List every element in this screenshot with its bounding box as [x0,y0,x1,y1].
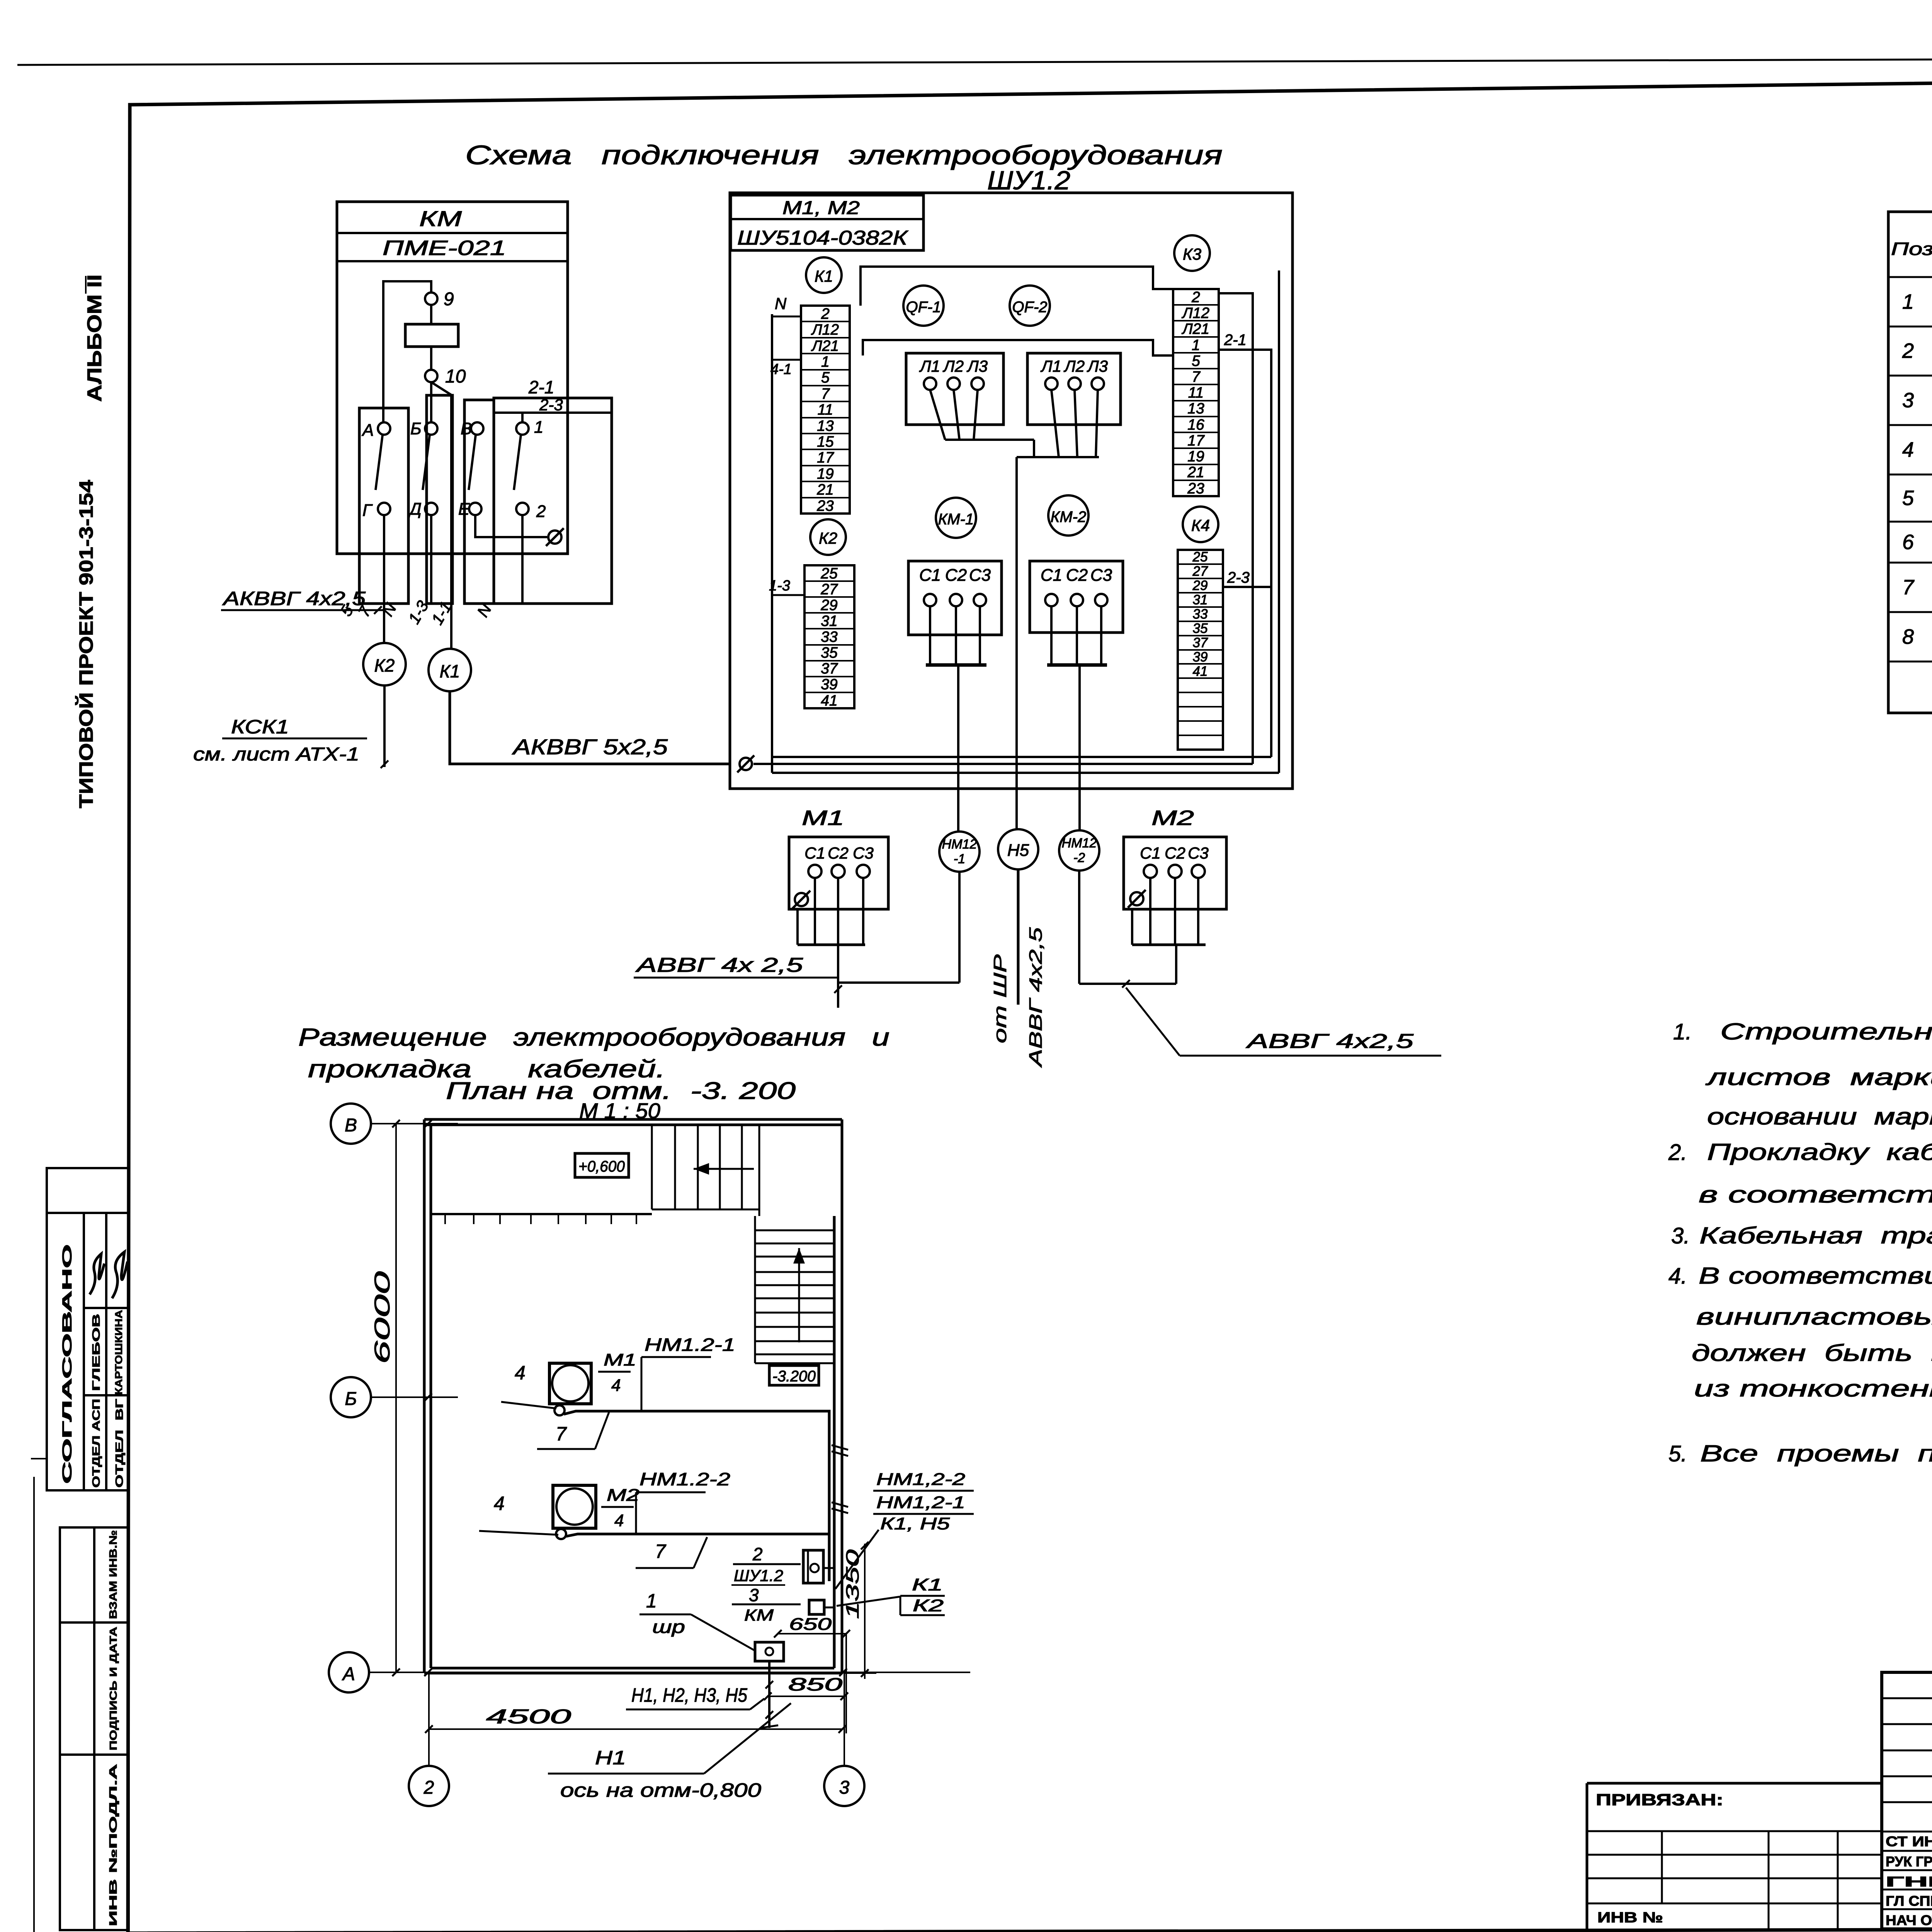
stamp signature 1 [90,1254,104,1294]
svg-text:К1: К1 [912,1575,943,1594]
axis marker А [329,1652,369,1692]
svg-text:Д: Д [408,500,422,519]
svg-text:КСК1: КСК1 [231,716,289,738]
svg-text:17: 17 [1187,432,1205,449]
wire НМ12-2 down [1078,871,1080,984]
svg-text:29: 29 [820,597,837,614]
wire Е to earth symbol [475,515,547,537]
cable marker К1 [429,649,471,691]
svg-text:3: 3 [1902,389,1914,412]
svg-text:3.: 3. [1671,1223,1690,1248]
cable Н1-Н5 exit down [768,1661,770,1728]
svg-text:Прокладку кабелей и проводо: Прокладку кабелей и проводов выполнить [1707,1139,1932,1165]
lower stair arrow [798,1248,800,1342]
cable path М2 to cabinet [566,1534,829,1536]
leader шр to box [691,1614,755,1651]
svg-text:см. лист АТХ-1: см. лист АТХ-1 [193,744,359,765]
svg-text:А: А [342,1664,355,1684]
svg-text:СТ ИНЖ: СТ ИНЖ [1886,1833,1932,1849]
svg-text:от ШР: от ШР [990,954,1010,1043]
svg-text:19: 19 [1187,448,1204,465]
bottom bus B [772,756,1271,758]
svg-text:37: 37 [1193,635,1208,650]
pump unit М2 [553,1485,596,1528]
attachment box ПРИВЯЗАН [1587,1782,1883,1785]
svg-text:5: 5 [821,369,830,386]
wire М2 cable drop [1175,945,1177,984]
svg-text:1: 1 [821,354,830,370]
cable marker Н5 [998,829,1038,869]
lamp box Л1-Л3 group 2 [1027,353,1121,425]
terminal strip К1 [801,306,850,514]
svg-text:КАРТОШКИНА: КАРТОШКИНА [113,1310,124,1395]
terminal 10 [425,370,437,382]
motor box М2 [1124,837,1226,909]
svg-text:7: 7 [1902,576,1915,599]
svg-text:АКВВГ 5х2,5: АКВВГ 5х2,5 [512,735,668,759]
relay marker К1 [806,257,842,293]
svg-text:2: 2 [536,502,546,521]
svg-text:1: 1 [646,1590,657,1612]
terminal box С1-С3 group 1 (КМ-1) [908,561,1002,635]
svg-text:+0,600: +0,600 [578,1158,625,1175]
svg-text:11: 11 [1188,384,1204,401]
svg-text:7: 7 [821,386,830,402]
svg-text:9: 9 [444,289,454,310]
leader to АВВГ label М2 [1126,988,1180,1056]
svg-text:2-3: 2-3 [539,396,563,414]
svg-text:21: 21 [816,481,833,498]
svg-text:2: 2 [423,1777,434,1798]
svg-text:НМ1.2-2: НМ1.2-2 [639,1469,730,1489]
svg-text:13: 13 [1187,400,1204,417]
contact 1 [516,422,529,435]
svg-text:39: 39 [1193,650,1208,665]
svg-text:3: 3 [839,1777,850,1798]
svg-text:7: 7 [655,1541,667,1562]
svg-text:В: В [345,1115,357,1136]
svg-text:4.: 4. [1668,1264,1687,1289]
svg-text:2-3: 2-3 [1227,569,1250,586]
earth symbol М2 [1130,892,1143,905]
svg-text:Г: Г [362,501,373,520]
earth symbol cabinet [740,758,752,770]
svg-text:29: 29 [1192,578,1208,593]
svg-text:2-1: 2-1 [528,377,554,397]
motor box М1 [789,837,888,909]
wire contact 1 stub [521,413,524,422]
svg-text:2: 2 [752,1544,763,1564]
svg-text:К1: К1 [815,267,833,285]
wire НМ12-1 feeder down [957,665,959,832]
svg-text:4: 4 [1902,438,1914,461]
svg-text:1-3: 1-3 [769,578,790,594]
svg-text:1350: 1350 [842,1549,862,1619]
svg-text:С3: С3 [853,844,874,862]
cable marker НМ12-2 [1059,830,1099,871]
contact chamber Б-Д [427,395,452,604]
svg-text:К1, Н5: К1, Н5 [880,1514,950,1533]
leader К1/К2 to КМ [837,1597,900,1606]
svg-text:Кабельная трасса идет на в: Кабельная трасса идет на высоте 2,5 м от… [1699,1223,1932,1248]
approval stamp strip (СОГЛАСОВАНО) [47,1168,129,1490]
svg-text:ВЗАМ ИНВ.№: ВЗАМ ИНВ.№ [107,1530,119,1619]
top bus wire [861,267,1173,306]
wall top [424,1118,842,1121]
svg-text:5: 5 [1192,353,1200,369]
svg-text:ГЛЕБОВ: ГЛЕБОВ [90,1314,102,1391]
svg-text:основании марки ТХ-2 .: основании марки ТХ-2 . [1707,1104,1932,1129]
svg-text:16: 16 [1187,417,1204,433]
svg-text:ПМЕ-021: ПМЕ-021 [383,236,506,260]
cable marker НМ12-1 [939,832,980,872]
svg-text:НАЧ ОТД: НАЧ ОТД [1886,1912,1932,1928]
cabinet inner bottom rail [772,772,1279,774]
relay marker К2 [810,519,846,555]
svg-text:М1, М2: М1, М2 [782,198,860,218]
relay marker К3 [1174,235,1210,271]
svg-text:КМ-2: КМ-2 [1051,509,1086,526]
wire 9 bypass to contact A [383,281,431,422]
svg-text:4: 4 [494,1493,505,1514]
svg-text:2.: 2. [1668,1140,1687,1165]
svg-text:7: 7 [1192,369,1201,385]
svg-text:КМ-1: КМ-1 [938,511,974,528]
svg-text:должен быть выполнен отрезк: должен быть выполнен отрезками или колен… [1692,1340,1932,1366]
svg-text:КМ: КМ [744,1606,774,1624]
wire НМ12-2 feeder down [1078,665,1081,831]
svg-text:В соответствии с СНиП III -: В соответствии с СНиП III - 33 - 76 пунк… [1699,1263,1932,1289]
elevation box -3.200 [769,1366,819,1385]
contact Б [425,422,437,435]
svg-text:К2: К2 [819,529,837,547]
svg-text:5: 5 [1902,486,1914,510]
wire Г to К2 [383,515,385,643]
svg-text:Л12: Л12 [1181,305,1209,321]
auxiliary chamber 2-1/2-3 [494,398,612,604]
terminal strip К3 [1173,289,1219,496]
wire 10 to contact Б [430,382,432,422]
upper stair treads [651,1125,653,1209]
contact blade А-Г [376,435,383,490]
svg-text:35: 35 [1193,621,1208,636]
svg-text:13: 13 [817,418,834,434]
svg-text:4: 4 [611,1376,621,1395]
svg-text:Л21: Л21 [1181,321,1209,337]
svg-text:25: 25 [820,565,838,582]
svg-text:СОГЛАСОВАНО: СОГЛАСОВАНО [60,1244,75,1484]
wire tag 1-1 [428,598,455,628]
svg-text:Н1, Н2, Н3, Н5: Н1, Н2, Н3, Н5 [631,1684,747,1706]
axis line Б [371,1396,458,1398]
svg-text:К2: К2 [913,1596,944,1615]
svg-text:41: 41 [1193,664,1208,679]
starter КМ on plan [809,1600,824,1614]
svg-text:С2: С2 [1165,844,1185,862]
svg-text:НМ12: НМ12 [942,837,977,852]
earth symbol in chamber [548,531,561,544]
pump unit М1 [549,1363,591,1404]
wire 2 down [521,515,524,603]
terminal strip N bracket [772,316,801,318]
wire coil to 10 [430,347,432,370]
cabinet inner right rail [1278,270,1280,773]
svg-text:ОТДЕЛ ВГ: ОТДЕЛ ВГ [113,1399,125,1488]
svg-text:27: 27 [820,581,838,598]
svg-text:4: 4 [515,1362,526,1384]
axis line В [371,1123,458,1124]
svg-text:Л12: Л12 [811,321,839,338]
svg-text:23: 23 [816,498,834,514]
axis marker 3 [824,1766,864,1806]
svg-text:В: В [461,419,472,438]
wire 2-3 from К4 strip [1223,586,1271,588]
dim 6000 line [395,1124,397,1672]
svg-text:АКВВГ 4х2,5: АКВВГ 4х2,5 [222,588,366,609]
lamp box Л1-Л3 group 1 [906,353,1003,425]
svg-text:3: 3 [749,1585,759,1605]
breaker marker QF-2 [1010,286,1050,326]
axis marker В [331,1104,371,1144]
svg-text:37: 37 [821,660,838,677]
svg-text:33: 33 [1193,607,1208,622]
svg-text:Л21: Л21 [811,338,839,354]
svg-text:Л2: Л2 [1063,357,1085,375]
svg-text:ШУ1.2: ШУ1.2 [987,166,1070,195]
svg-text:С2: С2 [828,844,849,862]
svg-text:М1: М1 [604,1350,636,1369]
contact blade В-Е [469,435,476,490]
svg-text:К3: К3 [1183,245,1201,263]
svg-text:С1: С1 [804,844,825,862]
svg-text:С1: С1 [1140,844,1161,862]
lower stair flight [754,1216,756,1363]
wire К3 row2 to bottom bus [1219,293,1253,764]
contact Д [425,503,437,515]
contact blade 1-2 [514,435,521,490]
svg-text:Б: Б [410,419,422,438]
svg-text:Н5: Н5 [1007,841,1029,860]
svg-text:ПРИВЯЗАН:: ПРИВЯЗАН: [1596,1791,1723,1809]
terminal 9 [425,293,437,305]
svg-text:ШУ1.2: ШУ1.2 [734,1566,783,1585]
wire tag N right [473,600,495,620]
svg-text:НМ12: НМ12 [1062,836,1097,850]
svg-text:НМ1.2-1: НМ1.2-1 [645,1335,735,1355]
svg-text:4: 4 [614,1511,624,1530]
cabinet inner left rail [771,314,773,773]
contact A [378,422,390,435]
contact Е [469,503,481,515]
elevation box +0,600 [575,1153,629,1177]
svg-text:6000: 6000 [370,1271,394,1364]
wire К2 down to КСК1 [383,685,386,767]
svg-text:17: 17 [817,449,834,466]
cable marker К2 [363,643,406,685]
wires lamps group2 to bus [1051,390,1059,457]
svg-text:Размещение электрооборудован: Размещение электрооборудования и [298,1023,889,1051]
svg-text:К2: К2 [374,655,395,675]
svg-text:33: 33 [821,629,838,645]
svg-text:Н1: Н1 [595,1747,626,1769]
svg-text:НМ1,2-1: НМ1,2-1 [876,1493,965,1512]
svg-text:-3.200: -3.200 [772,1368,816,1385]
contactor marker КМ-1 [936,498,976,538]
svg-text:Л1: Л1 [1040,357,1061,375]
wire Н5 feeder down [1015,457,1018,830]
contactor marker КМ-2 [1048,495,1088,536]
wire НМ12-1 to М1 [958,872,961,983]
wires М1 to bus [814,878,816,945]
svg-text:N: N [775,294,787,313]
terminal strip К2 [804,565,854,708]
svg-text:ПОДПИСЬ И ДАТА: ПОДПИСЬ И ДАТА [107,1627,119,1750]
wire 2-1 from К3 strip [1219,350,1271,757]
wire tag 1-3 [405,597,432,627]
svg-text:4500: 4500 [486,1706,571,1728]
svg-text:ОТДЕЛ АСП: ОТДЕЛ АСП [90,1399,102,1488]
svg-text:М2: М2 [1151,806,1194,830]
svg-text:АЛЬБОМ II: АЛЬБОМ II [83,274,106,402]
svg-text:С3: С3 [1188,844,1209,862]
svg-text:27: 27 [1192,564,1208,579]
svg-text:2: 2 [1902,339,1914,362]
wall bottom [424,1672,842,1675]
wires С group2 to bus [1050,606,1053,665]
svg-text:25: 25 [1192,549,1208,565]
leader from tag stack to wall [835,1530,879,1589]
wires С group1 to bus [929,606,931,665]
svg-text:8: 8 [1902,625,1914,648]
svg-text:шр: шр [652,1617,685,1637]
wall sleeve marks [832,1445,848,1450]
svg-text:ШУ5104-0382К: ШУ5104-0382К [737,227,909,249]
earth symbol М1 [795,893,808,906]
contact chamber А-Г [359,408,408,604]
svg-text:5.: 5. [1668,1441,1687,1466]
svg-text:41: 41 [821,692,837,709]
stamp signature 2 [112,1252,128,1298]
cabinet ШР on plan [755,1642,784,1661]
wires М2 to bus [1149,878,1151,945]
svg-text:Л1: Л1 [919,357,940,375]
svg-text:КМ: КМ [419,206,462,231]
svg-text:Б: Б [345,1389,357,1409]
terminal strip 1-3 bracket [772,594,804,596]
svg-text:6: 6 [1902,531,1914,554]
cabinet header box М1 М2 / ШУ5104-0382К [731,195,923,250]
svg-text:С3: С3 [1090,566,1112,585]
svg-text:Л3: Л3 [966,357,988,375]
cable path М1 to cabinet [564,1411,829,1581]
svg-text:Схема подключения электроо: Схема подключения электрооборудования [465,140,1223,170]
svg-text:-2: -2 [1073,850,1085,865]
svg-text:Л3: Л3 [1087,357,1108,375]
svg-text:850: 850 [788,1674,843,1694]
wire 10 to K1 feeder (1-1) [431,382,451,649]
contact В [471,422,483,435]
svg-text:31: 31 [1193,592,1208,607]
svg-text:Все проемы после монтажа з: Все проемы после монтажа заделать [1700,1440,1932,1466]
terminal strip К4 [1178,550,1223,750]
svg-text:23: 23 [1187,480,1204,497]
svg-text:листов марки АС-5 , а техн: листов марки АС-5 , а технологическая на [1705,1064,1932,1090]
breaker marker QF-1 [903,286,944,326]
svg-text:АВВГ 4х 2,5: АВВГ 4х 2,5 [635,954,804,976]
svg-text:С2: С2 [1066,566,1088,585]
svg-text:НМ1,2-2: НМ1,2-2 [876,1470,965,1489]
terminal strip 4-1 bracket [772,359,801,361]
wall right [841,1119,844,1673]
page top thin rule [17,57,1932,65]
svg-text:А: А [361,421,374,440]
svg-text:ГЛ СПЕЦ: ГЛ СПЕЦ [1886,1893,1932,1909]
svg-text:из тонкостенных стальных тр: из тонкостенных стальных труб. [1694,1376,1932,1401]
svg-text:1: 1 [1902,290,1914,313]
inventory stamp strip (ИНВ №) [60,1527,129,1930]
wire Д down [430,515,432,603]
svg-text:-1: -1 [954,852,965,866]
wire К1 down and to cabinet (АКВВГ 5х2,5) [450,691,730,764]
svg-text:1: 1 [1192,337,1200,354]
contact Г [378,503,390,515]
axis marker Б [331,1377,371,1417]
svg-text:АВВГ 4х2,5: АВВГ 4х2,5 [1245,1030,1414,1053]
svg-text:2: 2 [1191,289,1200,306]
wire М1 cable drop [837,945,839,1008]
wires lamps group1 to bus [930,390,945,440]
wire 9 to coil [430,305,432,324]
svg-text:1.: 1. [1673,1019,1692,1044]
wire tag N [378,600,400,619]
svg-text:650: 650 [789,1615,832,1634]
svg-text:ГНП: ГНП [1886,1874,1932,1889]
wire Н5 cable to ШР [1017,869,1020,1005]
svg-text:35: 35 [821,645,838,661]
svg-text:М1: М1 [802,806,844,830]
svg-text:С1: С1 [919,566,941,585]
svg-text:Строительная часть принята: Строительная часть принята на основании [1720,1019,1932,1044]
coil KM [405,324,458,347]
svg-text:15: 15 [817,434,834,450]
dim 4500 line [429,1728,842,1730]
svg-text:К1: К1 [440,661,460,681]
svg-text:7: 7 [556,1423,567,1445]
contact blade Б-Д [423,435,430,490]
svg-text:винипластовых труб наружу: винипластовых труб наружу из подливок по… [1696,1304,1932,1330]
svg-text:К4: К4 [1191,516,1210,534]
axis line А [369,1672,970,1673]
svg-text:11: 11 [818,401,833,418]
dim 850 line [768,1696,844,1697]
svg-text:С2: С2 [945,566,967,585]
axis extension lines to 2 and 3 [428,1673,430,1765]
wire tag 5 [337,602,357,619]
bottom bus A with earth [753,763,1253,765]
title block outline [1882,1672,1932,1929]
svg-text:QF-2: QF-2 [1012,299,1047,316]
upper stair arrow [694,1168,754,1170]
svg-text:Л2: Л2 [942,357,964,375]
svg-text:С3: С3 [969,566,991,585]
svg-text:31: 31 [821,613,837,629]
svg-text:1: 1 [534,418,543,437]
upper landing edge line [432,1213,652,1215]
svg-text:39: 39 [821,676,837,693]
specification table grid [1888,212,1932,713]
left paper edge rule [33,1477,35,1932]
svg-text:С1: С1 [1041,566,1062,585]
